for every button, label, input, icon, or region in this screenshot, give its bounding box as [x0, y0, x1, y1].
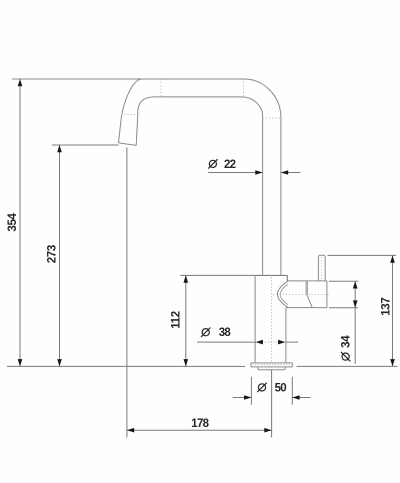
extension line base center: [271, 370, 273, 438]
svg-text:34: 34: [341, 335, 353, 348]
arrow 273 up: [57, 145, 62, 152]
svg-text:50: 50: [275, 382, 287, 394]
dimension line 178: [127, 429, 272, 431]
handle cap slant: [307, 294, 313, 307]
svg-text:273: 273: [46, 245, 58, 263]
faucet spout top outer line: [12, 78, 244, 80]
dimension line d34: [354, 281, 356, 364]
body left edge: [254, 275, 256, 363]
label d34 symbol and 34 rotated: [341, 335, 353, 361]
body right edge: [285, 309, 287, 363]
counter line left: [7, 365, 245, 367]
svg-text:137: 137: [381, 298, 393, 316]
riser tube left edge: [262, 116, 264, 276]
tangent marker outlet dotted: [121, 114, 138, 116]
label d38 symbol: [201, 328, 210, 337]
extension line body top (112): [180, 274, 255, 276]
valve cylinder bottom: [286, 308, 327, 309]
body-cylinder intersection curve: [278, 281, 289, 307]
arrow d34 up: [353, 281, 358, 288]
svg-text:112: 112: [170, 311, 182, 329]
riser tube right edge: [280, 118, 282, 276]
body-cylinder inner curve: [280, 284, 288, 304]
tangent marker right dotted: [243, 79, 245, 97]
extension line lever top (137): [328, 254, 397, 256]
dimension line d38: [197, 341, 256, 343]
label d50 symbol: [257, 383, 266, 392]
dimension line d38 right tail: [286, 341, 298, 343]
spout outlet left edge: [119, 116, 122, 143]
dimension line d22 left: [208, 172, 263, 174]
label d22 symbol: [208, 159, 217, 168]
dimension line 137: [392, 255, 394, 366]
arrow d50 right: [292, 395, 299, 400]
spout outlet tip: [119, 143, 137, 146]
valve cylinder right end: [326, 281, 328, 308]
arrow d38 right: [278, 340, 285, 345]
arrow 112 up: [184, 275, 189, 282]
dimension line 354: [19, 79, 21, 366]
spout left bend outer: [122, 79, 143, 116]
extension line outlet center: [126, 148, 128, 438]
handle cap joint line 1: [305, 281, 307, 294]
dimension line d22 right: [281, 172, 301, 174]
tangent marker left dotted: [160, 79, 162, 97]
body top line: [255, 275, 288, 281]
arrow 354 down: [18, 359, 23, 366]
arrow 137 up: [390, 255, 395, 262]
extension line base left (d50): [250, 377, 252, 405]
arrow 354 up: [18, 79, 23, 86]
handle cap joint line 2: [306, 281, 308, 294]
svg-text:354: 354: [7, 212, 19, 231]
dimension line 112: [185, 275, 187, 366]
valve cylinder axis dotted: [273, 293, 329, 295]
dimension line 273: [59, 145, 61, 366]
dimension line d38 dotted middle: [262, 341, 279, 343]
vertical center axis dotted: [271, 277, 273, 362]
arrow 178 right: [264, 428, 271, 433]
valve cylinder top: [289, 280, 327, 282]
spout left bend inner: [138, 97, 154, 115]
spout right bend inner: [241, 97, 263, 116]
arrow d38 left: [256, 340, 263, 345]
extension line cylinder top (d34): [329, 280, 358, 282]
extension line outlet (273): [52, 144, 119, 146]
faucet spout inner top line: [154, 96, 241, 98]
extension line cylinder bottom (d34): [329, 307, 358, 309]
base plate hidden dotted: [253, 363, 292, 365]
arrow d22 right: [281, 170, 288, 175]
arrow d50 left: [244, 395, 251, 400]
arrow d22 left: [255, 170, 262, 175]
arrow 273 down: [57, 359, 62, 366]
lever stem axis dotted: [321, 257, 323, 280]
svg-text:22: 22: [224, 159, 236, 171]
dimension line d50 right: [292, 397, 310, 399]
tangent marker riser dotted: [263, 117, 281, 119]
arrow d34 down: [353, 300, 358, 307]
svg-text:38: 38: [219, 327, 232, 339]
dimension line d50 left: [233, 397, 252, 399]
base plate lower lip: [258, 367, 285, 370]
counter line right: [297, 365, 398, 367]
svg-text:178: 178: [191, 418, 209, 430]
lever stem: [318, 255, 325, 281]
base plate: [251, 363, 292, 367]
arrow 137 down: [390, 359, 395, 366]
spout outlet right edge: [136, 115, 138, 146]
arrows: [18, 79, 395, 433]
arrow 178 left: [127, 428, 134, 433]
arrow 112 down: [184, 359, 189, 366]
spout right bend outer: [244, 79, 281, 118]
extension line base right (d50): [291, 377, 293, 405]
